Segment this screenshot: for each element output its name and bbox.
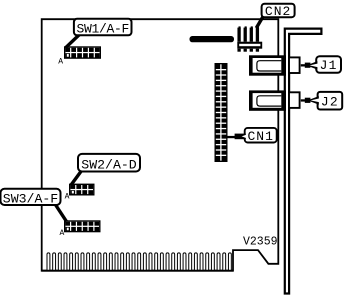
label CN2 [262,4,295,19]
J1 callout arrow [301,61,318,70]
svg-text:SW2/A-D: SW2/A-D [81,157,136,172]
connector J2 (jack, side view) [249,90,300,110]
svg-text:A: A [60,229,65,238]
IC bar [190,36,235,42]
svg-text:J1: J1 [320,58,338,73]
svg-text:SW1/A-F: SW1/A-F [76,21,129,36]
svg-text:A: A [58,57,63,66]
label SW3/A-F [1,189,61,207]
DIP switch SW2 [69,184,95,196]
svg-text:J2: J2 [321,94,339,109]
svg-text:CN1: CN1 [247,129,273,144]
svg-text:SW3/A-F: SW3/A-F [3,192,58,207]
label CN1 [245,128,277,144]
connector J1 (jack, side view) [249,55,300,75]
label J2 [318,92,343,110]
svg-text:V2359: V2359 [243,235,278,248]
DIP switch SW1 [64,46,101,59]
mounting bracket [285,29,322,294]
SW1 callout tail [66,34,81,48]
edge connector (gold fingers) [42,253,233,271]
SW3 callout tail [55,204,67,222]
svg-text:CN2: CN2 [265,4,291,19]
connector CN2 (4-pin header) [237,26,262,51]
label SW1/A-F [74,19,132,37]
card outline (PCB edge) [42,19,279,271]
label SW2/A-D [78,154,140,172]
svg-text:A: A [65,193,70,202]
SW2 callout tail [71,170,82,185]
connector CN1 (2x18 header) [215,63,228,162]
CN2 callout tail [256,17,263,28]
J2 callout arrow [301,96,320,105]
CN1 callout arrow [228,134,247,140]
DIP switch SW3 [64,220,101,232]
label J1 [316,56,341,73]
